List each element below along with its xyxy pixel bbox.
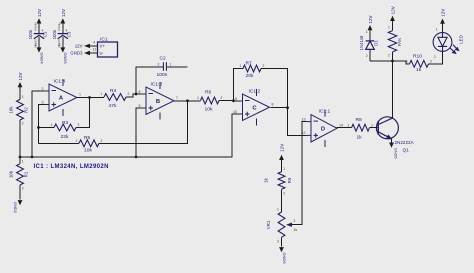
svg-text:12V: 12V <box>37 9 42 17</box>
svg-text:2: 2 <box>388 54 390 58</box>
wire op-amp B plus input to reference rail <box>136 108 142 157</box>
svg-text:GND3: GND3 <box>70 51 83 56</box>
resistor R5 10k <box>76 135 103 153</box>
wire Q1 emitter down <box>391 139 393 143</box>
svg-text:10k: 10k <box>84 147 92 153</box>
wire R7 feedback loop left <box>234 69 244 101</box>
svg-text:1: 1 <box>283 167 285 171</box>
svg-text:R6: R6 <box>205 89 212 95</box>
svg-text:FAN: FAN <box>397 38 402 46</box>
svg-text:R8: R8 <box>356 117 363 123</box>
wire C2 feedback loop left <box>136 67 163 94</box>
resistor R8 1k <box>348 117 374 140</box>
svg-text:2: 2 <box>59 43 61 47</box>
resistor R2 10k <box>9 95 29 126</box>
svg-text:12V: 12V <box>280 144 285 152</box>
svg-text:2: 2 <box>434 55 436 59</box>
svg-text:2: 2 <box>22 187 24 191</box>
svg-text:V+: V+ <box>100 44 106 49</box>
resistor R9 1k <box>264 160 293 196</box>
svg-text:2: 2 <box>101 139 103 143</box>
svg-text:1: 1 <box>35 22 37 26</box>
svg-text:100n: 100n <box>28 29 33 39</box>
ground Q1 emitter <box>389 143 397 159</box>
svg-text:2: 2 <box>366 54 368 58</box>
svg-text:10k: 10k <box>9 106 14 114</box>
wire left rail top <box>19 87 21 99</box>
svg-text:1: 1 <box>79 93 81 97</box>
12V power arrow LED <box>440 9 446 24</box>
wire op-amp A minus input to reference rail <box>32 91 45 157</box>
svg-text:2N2222A: 2N2222A <box>395 140 415 145</box>
svg-text:20k: 20k <box>246 73 254 79</box>
ground VR1 <box>279 247 287 264</box>
svg-text:1: 1 <box>22 159 24 163</box>
svg-text:D1: D1 <box>374 40 379 46</box>
svg-text:1: 1 <box>277 208 279 212</box>
svg-text:13: 13 <box>302 117 306 121</box>
svg-text:100n: 100n <box>52 29 57 39</box>
12V power arrow FAN <box>390 6 396 21</box>
svg-text:12V: 12V <box>75 44 83 49</box>
resistor R6 10k <box>197 89 223 112</box>
svg-text:1N4148: 1N4148 <box>359 35 364 50</box>
wire C2 feedback loop right <box>167 66 188 68</box>
svg-text:B: B <box>156 99 160 105</box>
svg-text:GND5: GND5 <box>393 148 397 159</box>
potentiometer VR1 <box>266 208 297 244</box>
svg-text:5: 5 <box>139 104 141 108</box>
wire R3 row <box>39 127 55 129</box>
wire R5 to op-amp B output node <box>99 100 188 143</box>
svg-text:10k: 10k <box>9 170 14 178</box>
svg-text:1: 1 <box>197 96 199 100</box>
op-amp IC1:4 <box>45 79 78 116</box>
svg-text:R7: R7 <box>246 61 253 67</box>
svg-text:2: 2 <box>263 64 265 68</box>
svg-text:12V: 12V <box>18 72 23 80</box>
svg-text:R3: R3 <box>62 120 69 126</box>
wire R10 to LED <box>429 52 443 64</box>
svg-text:V-: V- <box>100 51 105 56</box>
svg-text:22k: 22k <box>61 134 69 140</box>
svg-text:GND5: GND5 <box>63 52 68 64</box>
wire R6 to op-amp C minus input <box>219 100 238 103</box>
svg-text:R4: R4 <box>110 88 117 94</box>
svg-text:47k: 47k <box>109 103 117 109</box>
svg-text:12V: 12V <box>441 9 446 17</box>
svg-text:12V: 12V <box>368 15 373 23</box>
resistor R4 47k <box>101 88 130 109</box>
svg-text:2: 2 <box>371 123 373 127</box>
svg-text:R9: R9 <box>287 177 292 183</box>
svg-text:2: 2 <box>22 122 24 126</box>
svg-text:C1: C1 <box>43 31 48 37</box>
svg-text:2: 2 <box>35 43 37 47</box>
svg-text:R5: R5 <box>84 135 91 141</box>
ground left rail <box>13 200 23 214</box>
wire op-amp A plus input down to R3/R5 node <box>39 105 45 144</box>
LED indicator <box>433 24 463 60</box>
svg-text:2: 2 <box>283 192 285 196</box>
capacitor C2 100n <box>157 55 172 78</box>
12V power arrow R9 <box>279 144 285 160</box>
resistor R10 1k <box>406 53 432 73</box>
fan FAN (motor load) <box>388 21 402 61</box>
IC1 pin 11 GND terminal <box>70 47 97 55</box>
svg-text:1k: 1k <box>416 67 422 73</box>
svg-text:IC1:2: IC1:2 <box>249 88 261 94</box>
svg-text:1: 1 <box>388 26 390 30</box>
svg-text:3: 3 <box>42 100 44 104</box>
svg-text:1: 1 <box>406 59 408 63</box>
svg-text:2: 2 <box>294 219 296 223</box>
svg-text:1k: 1k <box>357 134 363 140</box>
op-amp IC1:3 <box>142 82 175 120</box>
svg-text:8: 8 <box>272 102 274 106</box>
svg-text:12V: 12V <box>61 9 66 17</box>
svg-text:IC1: IC1 <box>100 37 108 43</box>
svg-text:11: 11 <box>93 47 97 51</box>
svg-text:2: 2 <box>158 62 160 66</box>
wire op-amp D output row <box>337 127 352 130</box>
wire op-amp A output row <box>77 97 104 99</box>
wire R3 to A output <box>76 98 90 128</box>
IC1 power block <box>98 37 118 58</box>
diode D1 1N4148 <box>359 30 379 61</box>
svg-text:1: 1 <box>101 92 103 96</box>
svg-text:2: 2 <box>430 59 432 63</box>
svg-text:IC1:1: IC1:1 <box>319 109 331 115</box>
wire left rail mid <box>19 120 21 164</box>
node op-amp B minus junction <box>135 93 138 96</box>
transistor Q1 2N2222A <box>376 117 398 139</box>
op-amp IC1:1 <box>307 110 338 147</box>
svg-text:1: 1 <box>240 64 242 68</box>
resistor R1 10k <box>9 159 29 190</box>
wire op-amp C output to op-amp D plus input <box>271 108 307 136</box>
op-amp IC1:2 <box>238 89 270 126</box>
wire VR1 wiper to op-amp D minus input <box>292 122 307 225</box>
svg-text:VR1: VR1 <box>266 220 271 229</box>
capacitor C3 (100n decoupling) <box>52 9 71 64</box>
svg-text:R10: R10 <box>413 53 422 59</box>
svg-text:1: 1 <box>366 30 368 34</box>
svg-text:1: 1 <box>170 62 172 66</box>
svg-text:100n: 100n <box>157 72 168 78</box>
svg-text:C2: C2 <box>160 55 167 61</box>
svg-text:14: 14 <box>339 123 343 127</box>
svg-text:1: 1 <box>59 22 61 26</box>
resistor R7 20k <box>240 61 265 80</box>
svg-text:1k: 1k <box>294 228 298 232</box>
svg-text:2: 2 <box>128 92 130 96</box>
svg-text:12V: 12V <box>391 6 396 14</box>
svg-text:2: 2 <box>78 123 80 127</box>
resistor R3 22k <box>51 120 80 140</box>
wire VR1 to ground <box>281 237 283 246</box>
svg-text:GND2: GND2 <box>13 202 18 214</box>
wire R4 to op-amp B minus input <box>126 94 142 97</box>
svg-text:1k: 1k <box>264 177 269 182</box>
wire reference rail to op-amp C plus input <box>20 114 238 157</box>
wire R7 feedback loop right to output <box>261 69 288 108</box>
svg-text:7: 7 <box>176 96 178 100</box>
svg-text:LED: LED <box>459 35 464 44</box>
svg-text:IC1 : LM324N, LM2902N: IC1 : LM324N, LM2902N <box>34 164 109 170</box>
svg-text:6: 6 <box>139 90 141 94</box>
svg-text:9: 9 <box>235 97 237 101</box>
svg-text:2: 2 <box>221 96 223 100</box>
svg-text:IC1:3: IC1:3 <box>151 82 163 88</box>
wire D1/FAN rail to R10 <box>370 61 410 64</box>
svg-text:1: 1 <box>76 139 78 143</box>
svg-text:GND6: GND6 <box>282 252 287 264</box>
12V power arrow D1 <box>368 15 374 30</box>
wire op-amp B output row <box>174 100 201 102</box>
wire R9 to VR1 <box>281 189 283 212</box>
IC1 pin 4 12V terminal <box>75 40 98 48</box>
svg-text:R1: R1 <box>24 171 29 177</box>
svg-text:1: 1 <box>436 28 438 32</box>
wire left rail bottom <box>19 185 21 200</box>
svg-text:10: 10 <box>233 110 237 114</box>
capacitor C1 (100n decoupling) <box>28 9 47 64</box>
svg-text:2: 2 <box>42 87 44 91</box>
svg-text:C3: C3 <box>66 31 71 37</box>
wire R5 row lead <box>39 142 80 144</box>
svg-text:D: D <box>321 127 325 133</box>
svg-text:1: 1 <box>51 123 53 127</box>
svg-text:10k: 10k <box>205 107 213 113</box>
svg-text:Q1: Q1 <box>403 148 410 153</box>
svg-text:1: 1 <box>22 95 24 99</box>
svg-text:4: 4 <box>93 40 95 44</box>
12V power arrow left rail <box>18 72 24 87</box>
wire R8 to Q1 base <box>370 127 379 129</box>
svg-text:R2: R2 <box>24 107 29 113</box>
svg-text:3: 3 <box>277 240 279 244</box>
wire Q1 collector up <box>392 61 394 118</box>
svg-text:GND4: GND4 <box>39 52 44 64</box>
svg-text:1: 1 <box>348 123 350 127</box>
svg-text:IC1:4: IC1:4 <box>54 78 66 84</box>
node divider junction <box>19 156 22 159</box>
